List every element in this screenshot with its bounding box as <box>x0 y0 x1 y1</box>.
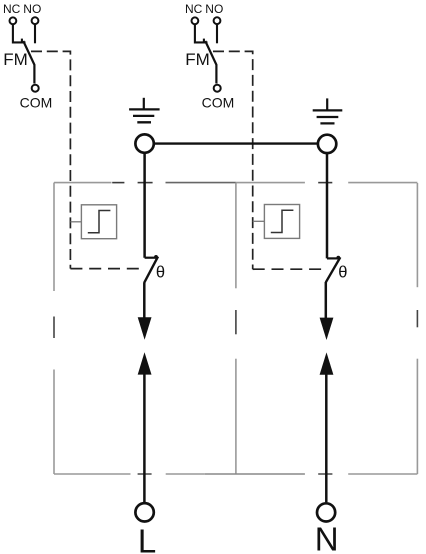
thermal switch 1 contact dot <box>154 255 158 259</box>
FM contact 2: NC fixed contact wire <box>195 24 208 42</box>
PE terminal circle 1 <box>135 134 153 152</box>
FM linkage 2 dashed horizontal to thermal switch <box>253 268 327 270</box>
ground symbol 2 bars <box>313 110 343 123</box>
thermal switch 2 lever <box>326 257 341 282</box>
FM contact 1: NO terminal circle <box>32 17 39 24</box>
svg-text:NC: NC <box>3 2 21 16</box>
svg-text:NO: NO <box>23 2 41 16</box>
trigger box 1 step waveform <box>88 211 111 233</box>
svg-text:FM: FM <box>3 50 28 69</box>
FM contact 2: NO terminal circle <box>214 17 221 24</box>
ground symbol 1 bars <box>129 109 160 122</box>
trigger box 1 (pulse symbol square) <box>81 205 116 239</box>
spark gap 1 lower arrowhead (up) <box>138 352 152 374</box>
svg-text:FM: FM <box>185 50 210 69</box>
L terminal circle <box>135 503 153 521</box>
thermal switch 1 fixed contact tick <box>145 257 158 259</box>
trigger box 2 step waveform <box>271 210 294 232</box>
thermal switch 2 contact dot <box>336 256 340 260</box>
enclosure box top edge (gray with dark dashes) <box>54 182 417 184</box>
N terminal circle <box>317 503 335 521</box>
thermal switch 1 lever <box>144 257 158 283</box>
enclosure box right edge <box>416 183 418 474</box>
FM contact 1: NC contact tick <box>21 39 23 43</box>
wire: PE circle 1 down to thermal switch 1 <box>143 153 146 258</box>
wire: spark gap 2 to N terminal <box>325 374 328 502</box>
wire: spark gap 1 to L terminal <box>143 374 146 502</box>
enclosure box bottom edge <box>54 473 417 475</box>
FM contact 2: COM terminal circle <box>214 85 221 92</box>
svg-text:θ: θ <box>156 264 165 282</box>
ground symbol 2 stem <box>326 98 328 110</box>
PE terminal circle 2 <box>318 135 336 153</box>
FM contact 1: COM terminal circle <box>32 85 39 92</box>
FM contact 1: NC fixed contact wire <box>13 24 26 42</box>
spark gap 1 upper arrowhead (down) <box>138 317 152 339</box>
enclosure box left edge <box>53 183 55 474</box>
FM linkage 2 dashed path <box>213 51 253 269</box>
trigger box 2 connector <box>253 220 265 222</box>
svg-text:N: N <box>315 521 339 554</box>
FM contact 2: movable lever <box>205 41 216 84</box>
FM contact 2: NO terminal stub <box>216 24 218 43</box>
FM contact 1: NO terminal stub <box>34 24 36 43</box>
FM linkage 1 dashed horizontal to thermal switch <box>70 268 139 270</box>
PE bus wire <box>154 142 319 144</box>
svg-text:NC: NC <box>185 2 203 16</box>
wire: thermal switch 1 to spark gap 1 <box>143 282 146 318</box>
enclosure box middle divider <box>235 183 237 474</box>
thermal switch 2 fixed contact tick <box>327 257 340 259</box>
svg-text:COM: COM <box>202 95 235 111</box>
spark gap 2 lower arrowhead (up) <box>320 352 334 374</box>
svg-text:NO: NO <box>205 2 223 16</box>
trigger box 2 (pulse symbol square) <box>264 205 299 239</box>
wire: thermal switch 2 to spark gap 2 <box>325 282 328 318</box>
FM contact 1: movable lever <box>23 41 34 84</box>
FM linkage 1 dashed path <box>31 51 70 268</box>
svg-text:COM: COM <box>20 95 53 111</box>
FM contact 1: NC terminal circle <box>10 17 17 24</box>
svg-text:θ: θ <box>338 264 347 282</box>
spark gap 2 upper arrowhead (down) <box>320 318 334 340</box>
wire: PE circle 2 down to thermal switch 2 <box>326 153 329 258</box>
ground symbol 1 stem <box>143 98 145 110</box>
svg-text:L: L <box>138 522 156 554</box>
FM contact 2: NC contact tick <box>203 39 205 43</box>
trigger box 1 connector <box>70 221 81 223</box>
FM contact 2: NC terminal circle <box>192 17 199 24</box>
